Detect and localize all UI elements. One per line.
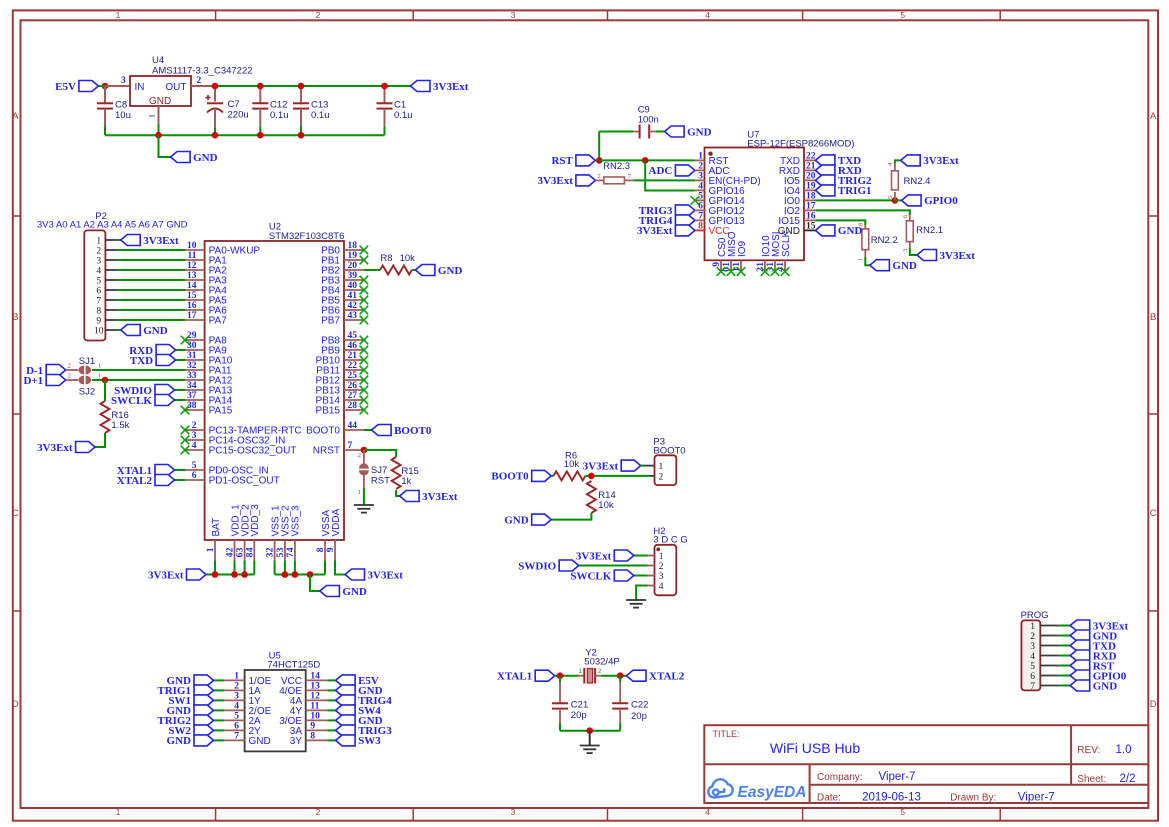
svg-text:OUT: OUT — [165, 82, 186, 93]
solder jumper SJ7 — [358, 450, 390, 496]
wire H2 pin1 — [634, 555, 648, 557]
svg-text:7: 7 — [348, 441, 353, 451]
solder jumper SJ1 — [66, 356, 102, 374]
svg-text:4: 4 — [192, 441, 197, 451]
svg-text:IO9: IO9 — [737, 240, 748, 257]
svg-text:3: 3 — [234, 692, 239, 702]
no-connect X at U2 right y350 — [360, 346, 369, 355]
svg-text:9: 9 — [326, 547, 336, 552]
svg-text:7: 7 — [286, 552, 296, 557]
resistor R15 — [392, 457, 419, 489]
svg-text:2/2: 2/2 — [1120, 773, 1136, 785]
no-connect X at U2 right y300 — [360, 296, 369, 305]
capacitor C9 — [599, 105, 664, 139]
svg-text:3: 3 — [659, 572, 664, 582]
wire RN2.4 to 3V3Ext — [895, 160, 901, 163]
svg-text:74HCT125D: 74HCT125D — [267, 660, 320, 671]
svg-text:19: 19 — [348, 251, 358, 261]
no-connect X at U2 right y260 — [360, 256, 369, 265]
svg-text:EasyEDA: EasyEDA — [738, 784, 807, 801]
net flag TRIG1 — [157, 685, 213, 697]
svg-text:10: 10 — [187, 241, 197, 251]
wire PD0 to XTAL1 flag — [175, 469, 186, 471]
mcu module U7 body — [705, 130, 855, 261]
svg-text:RST: RST — [551, 155, 573, 167]
net flag SWCLK — [111, 395, 174, 407]
svg-text:2: 2 — [192, 421, 197, 431]
svg-text:5: 5 — [96, 276, 101, 286]
U7 left pins — [695, 152, 761, 227]
title block Sheet — [1077, 773, 1135, 785]
svg-text:3: 3 — [266, 552, 276, 557]
svg-text:26: 26 — [348, 381, 358, 391]
no-connect X at U2 right y370 — [360, 366, 369, 375]
resistor R8 — [380, 253, 415, 275]
net flag 3V3Ext — [1070, 620, 1128, 632]
svg-text:22: 22 — [806, 152, 816, 162]
net flag GND — [665, 126, 712, 138]
svg-text:3V3Ext: 3V3Ext — [37, 442, 73, 454]
net flag TRIG4 — [336, 695, 393, 707]
svg-text:9: 9 — [310, 722, 315, 732]
svg-text:3V3Ext: 3V3Ext — [368, 569, 404, 581]
no-connect X at U7 pin5 — [691, 196, 700, 205]
wire PA10 to TXD flag — [176, 359, 185, 361]
svg-text:5: 5 — [192, 461, 197, 471]
wire junction to GPIO0 flag — [895, 199, 902, 201]
wire IO15 to RN2.2 — [815, 220, 865, 225]
svg-text:6: 6 — [192, 471, 197, 481]
svg-text:4: 4 — [96, 266, 101, 276]
svg-text:3V3Ext: 3V3Ext — [576, 550, 612, 562]
wire R15 to 3V3Ext — [396, 490, 400, 496]
junction crystal gnd — [586, 727, 593, 734]
junction BAT — [212, 571, 219, 578]
net flag SWDIO — [114, 385, 174, 397]
svg-text:Sheet:: Sheet: — [1077, 774, 1106, 785]
wire PB2 to R8 — [364, 269, 380, 271]
net flag GND — [320, 586, 367, 598]
net flag E5V — [336, 675, 379, 687]
net flag GND — [336, 715, 383, 727]
svg-text:RN2.4: RN2.4 — [904, 176, 931, 187]
ground symbol at SJ7 — [354, 505, 374, 513]
svg-text:5: 5 — [887, 196, 894, 199]
svg-text:20: 20 — [348, 261, 358, 271]
svg-text:1: 1 — [234, 672, 239, 682]
net flag GND — [167, 735, 214, 747]
svg-text:13: 13 — [310, 682, 320, 692]
svg-text:1: 1 — [698, 152, 703, 162]
connector H2 — [653, 526, 687, 595]
junction C12 — [257, 83, 264, 90]
no-connect X at U2 left y440 — [181, 436, 190, 445]
net flag XTAL2 — [117, 475, 175, 487]
net flag GND — [167, 675, 214, 687]
svg-text:8: 8 — [316, 547, 326, 552]
svg-text:3: 3 — [236, 547, 246, 552]
net flag SWCLK — [570, 570, 633, 582]
svg-text:Company:: Company: — [817, 772, 863, 783]
net flag TRIG3 — [639, 205, 695, 217]
svg-text:3: 3 — [511, 10, 516, 20]
U7 pin 8 VCC — [695, 222, 730, 237]
svg-text:4: 4 — [698, 182, 703, 192]
svg-text:1: 1 — [358, 489, 361, 496]
net flag ADC — [649, 165, 695, 177]
svg-text:BOOT0: BOOT0 — [394, 425, 432, 437]
svg-text:4: 4 — [245, 547, 255, 552]
svg-text:14: 14 — [187, 281, 197, 291]
wire C9 to RST row — [598, 132, 600, 161]
svg-text:SJ1: SJ1 — [79, 356, 95, 367]
svg-text:3: 3 — [511, 807, 516, 817]
ground symbol at Y2 — [580, 731, 600, 753]
svg-text:BOOT0: BOOT0 — [306, 426, 340, 437]
wire Y2 to XTAL2 node — [602, 675, 627, 677]
net flag 3V3Ext — [148, 569, 206, 581]
svg-text:D: D — [12, 699, 19, 710]
connector P3 — [653, 437, 685, 486]
svg-text:SWDIO: SWDIO — [518, 560, 556, 572]
wire BOOT0 to R6 — [551, 475, 553, 477]
svg-text:3V3Ext: 3V3Ext — [433, 81, 469, 93]
svg-text:2: 2 — [1030, 632, 1035, 642]
net flag GPIO0 — [902, 195, 959, 207]
svg-text:32: 32 — [187, 361, 197, 371]
no-connect X at U2 right y410 — [360, 406, 369, 415]
net flag TXD — [130, 355, 176, 367]
svg-text:XTAL2: XTAL2 — [649, 671, 685, 683]
net flag 3V3Ext — [576, 550, 634, 562]
svg-text:PC15-OSC32_OUT: PC15-OSC32_OUT — [209, 446, 297, 457]
svg-text:20p: 20p — [571, 710, 587, 721]
junction GND tap — [307, 571, 314, 578]
svg-text:2: 2 — [316, 807, 321, 817]
no-connect X at U7 MISO — [727, 267, 736, 276]
wire PA12 to SJ2 — [92, 379, 185, 381]
U2 right pins PB/BOOT0/NRST — [306, 241, 364, 456]
junction R6/R14 — [588, 473, 595, 480]
svg-text:21: 21 — [806, 162, 816, 172]
junction C12 gnd — [257, 132, 264, 139]
svg-text:40: 40 — [348, 281, 358, 291]
solder jumper SJ2 — [66, 373, 102, 398]
svg-text:1: 1 — [776, 262, 786, 267]
junction XTAL1/C21 — [557, 672, 564, 679]
svg-text:3: 3 — [96, 256, 101, 266]
wire R16 to 3V3Ext — [95, 433, 105, 447]
PROG pin wires — [1040, 626, 1070, 686]
svg-text:TXD: TXD — [130, 355, 153, 367]
svg-text:GND: GND — [143, 325, 168, 337]
svg-text:SCLK: SCLK — [781, 231, 792, 257]
no-connect X at U2 left y430 — [181, 426, 190, 435]
svg-text:SJ2: SJ2 — [79, 387, 95, 398]
svg-text:PA15: PA15 — [209, 406, 233, 417]
svg-text:1: 1 — [756, 262, 766, 267]
no-connect X at U7 IO10 — [761, 267, 770, 276]
no-connect X at U2 right y390 — [360, 386, 369, 395]
svg-text:BOOT0: BOOT0 — [491, 471, 529, 483]
net flag GND — [167, 705, 214, 717]
svg-text:Viper-7: Viper-7 — [1018, 792, 1055, 804]
svg-text:11: 11 — [310, 702, 319, 712]
net flag XTAL2 — [627, 670, 685, 682]
svg-text:16: 16 — [187, 301, 197, 311]
junction at E5V/C8 — [102, 83, 109, 90]
svg-text:1k: 1k — [401, 476, 411, 487]
svg-text:3: 3 — [698, 172, 703, 182]
svg-text:4: 4 — [659, 582, 664, 592]
junction C7 — [212, 83, 219, 90]
svg-text:3V3Ext: 3V3Ext — [143, 235, 179, 247]
U2 bottom pins BAT/VDD/VSS — [206, 504, 342, 560]
svg-text:REV:: REV: — [1077, 745, 1100, 756]
wire SJ2 to R16 — [104, 380, 106, 401]
svg-text:46: 46 — [348, 341, 358, 351]
svg-text:2: 2 — [698, 162, 703, 172]
svg-text:ADC: ADC — [649, 165, 673, 177]
no-connect X at U2 right y310 — [360, 306, 369, 315]
junction NRST — [361, 447, 368, 454]
svg-text:C: C — [12, 508, 19, 519]
wire IO2 to RN2.1 — [815, 210, 909, 215]
svg-text:R8: R8 — [380, 253, 392, 264]
net flag 3V3Ext — [637, 225, 695, 237]
U5 left pins — [214, 672, 272, 747]
svg-text:GND: GND — [149, 96, 171, 107]
svg-text:C22: C22 — [631, 700, 648, 711]
svg-text:5: 5 — [276, 552, 286, 557]
svg-text:1: 1 — [96, 236, 101, 246]
svg-text:GND: GND — [892, 260, 917, 272]
svg-text:SWCLK: SWCLK — [570, 570, 611, 582]
wire H2 pin4 to ground — [636, 586, 648, 601]
resistor RN2.4 — [887, 162, 930, 200]
no-connect X at U2 left y410 — [181, 406, 190, 415]
svg-text:C13: C13 — [311, 99, 328, 110]
net flag D-1 — [26, 365, 66, 377]
junction VSS_3 — [292, 571, 299, 578]
net flag GPIO0 — [1070, 670, 1127, 682]
svg-text:3: 3 — [121, 76, 126, 86]
junction C13 — [298, 83, 305, 90]
wire XTAL1 node — [555, 675, 578, 677]
svg-text:A: A — [12, 111, 19, 122]
svg-text:10k: 10k — [598, 500, 614, 511]
svg-text:1: 1 — [659, 552, 664, 562]
svg-text:13: 13 — [187, 271, 197, 281]
no-connect X at U2 right y340 — [360, 336, 369, 345]
capacitor C21 — [552, 676, 588, 731]
connector PROG — [1021, 610, 1049, 692]
svg-text:2: 2 — [68, 363, 71, 370]
svg-text:21: 21 — [348, 351, 358, 361]
svg-text:PA7: PA7 — [209, 316, 228, 327]
wire RST to U7 pin1 — [599, 159, 695, 161]
junction C13 gnd — [298, 132, 305, 139]
svg-text:B: B — [12, 312, 18, 323]
svg-text:9: 9 — [712, 262, 722, 267]
net flag 3V3Ext — [917, 250, 975, 262]
net flag 3V3Ext — [37, 442, 95, 454]
net flag TRIG1 — [815, 185, 871, 197]
svg-text:E5V: E5V — [55, 81, 76, 93]
wire PD1 to XTAL2 flag — [175, 479, 186, 481]
P3 pin1 stub — [641, 465, 655, 467]
resistor RN2.2 — [858, 223, 898, 261]
svg-text:37: 37 — [187, 391, 197, 401]
svg-text:31: 31 — [187, 351, 197, 361]
svg-text:4: 4 — [234, 702, 239, 712]
wire BOOT0 pin44 — [364, 429, 372, 431]
svg-text:VSS_3: VSS_3 — [291, 505, 302, 537]
svg-text:PD1-OSC_OUT: PD1-OSC_OUT — [209, 476, 280, 487]
no-connect X at U7 IO9 — [737, 267, 746, 276]
title block TITLE text — [713, 729, 861, 756]
svg-text:5032/4P: 5032/4P — [584, 656, 619, 667]
svg-text:2: 2 — [598, 173, 601, 180]
net flag GND — [870, 260, 917, 272]
svg-text:7: 7 — [234, 732, 239, 742]
svg-text:PB15: PB15 — [316, 406, 341, 417]
svg-text:3: 3 — [276, 547, 286, 552]
capacitor C12 — [252, 86, 288, 135]
svg-text:Date:: Date: — [817, 793, 841, 804]
no-connect X at U2 right y380 — [360, 376, 369, 385]
svg-text:3: 3 — [902, 249, 909, 252]
U4 pin 3 wire IN — [105, 76, 130, 86]
U4 pin 1 GND lead — [148, 106, 159, 135]
P3 pin2 stub — [649, 475, 655, 477]
svg-text:BOOT0: BOOT0 — [653, 445, 685, 456]
svg-text:GND: GND — [838, 225, 863, 237]
wire R8 to GND flag — [412, 269, 415, 271]
svg-text:C21: C21 — [571, 700, 588, 711]
net flag D+1 — [23, 375, 65, 387]
svg-text:2: 2 — [234, 682, 239, 692]
wire crystal ground rail — [560, 730, 620, 732]
net flag SW4 — [336, 705, 382, 717]
svg-text:PROG: PROG — [1021, 610, 1049, 621]
wire PA9 to RXD flag — [176, 349, 185, 351]
svg-text:15: 15 — [187, 291, 197, 301]
capacitor C22 — [612, 676, 648, 731]
resistor R16 — [101, 401, 130, 433]
svg-text:C7: C7 — [228, 99, 240, 110]
junction PA12/R16 — [102, 377, 109, 384]
svg-text:SWCLK: SWCLK — [111, 395, 152, 407]
svg-text:11: 11 — [188, 251, 197, 261]
svg-text:2: 2 — [68, 373, 71, 380]
svg-text:NRST: NRST — [313, 446, 340, 457]
svg-text:2: 2 — [197, 76, 202, 86]
svg-text:U4: U4 — [152, 55, 164, 66]
net flag GND — [336, 685, 383, 697]
svg-text:2019-06-13: 2019-06-13 — [862, 792, 921, 804]
capacitor C1 — [377, 86, 413, 135]
regulator U4 — [130, 55, 253, 107]
svg-text:RST: RST — [371, 475, 390, 486]
svg-text:1: 1 — [659, 462, 664, 472]
svg-text:3V3Ext: 3V3Ext — [583, 460, 619, 472]
svg-text:5: 5 — [1030, 662, 1035, 672]
svg-text:1: 1 — [206, 547, 216, 552]
svg-text:IN: IN — [135, 82, 145, 93]
wire to GND flag under U2 — [310, 575, 320, 592]
svg-text:19: 19 — [806, 182, 816, 192]
svg-text:15: 15 — [806, 222, 816, 232]
svg-text:RN2.3: RN2.3 — [603, 161, 630, 172]
connector P2 — [37, 211, 188, 341]
net flag 3V3Ext — [901, 155, 959, 167]
wire ground rail — [105, 134, 385, 136]
svg-text:7: 7 — [96, 296, 101, 306]
svg-text:2: 2 — [659, 472, 664, 482]
svg-text:10: 10 — [310, 712, 320, 722]
no-connect X at U2 left y450 — [181, 446, 190, 455]
svg-text:20: 20 — [806, 172, 816, 182]
svg-text:6: 6 — [1030, 672, 1035, 682]
svg-text:1: 1 — [1030, 622, 1035, 632]
svg-text:RN2.2: RN2.2 — [871, 235, 898, 246]
net flag RXD — [129, 345, 175, 357]
net flag 3V3Ext — [400, 491, 458, 503]
svg-text:GND: GND — [1093, 680, 1118, 692]
svg-text:GND: GND — [342, 586, 367, 598]
net flag GND — [1070, 630, 1117, 642]
svg-text:100n: 100n — [638, 115, 659, 126]
title block REV — [1077, 744, 1131, 756]
svg-text:1: 1 — [116, 807, 121, 817]
svg-text:10: 10 — [94, 326, 104, 336]
svg-text:3V3Ext: 3V3Ext — [923, 155, 959, 167]
svg-text:39: 39 — [348, 271, 358, 281]
no-connect X at U2 right y400 — [360, 396, 369, 405]
net flag SW1 — [168, 695, 213, 707]
wire PA14 to SWCLK flag — [175, 399, 186, 401]
net flag SW2 — [168, 725, 213, 737]
H2 pin stubs — [648, 556, 655, 586]
svg-text:3V3Ext: 3V3Ext — [637, 225, 673, 237]
svg-text:1: 1 — [722, 262, 732, 267]
EasyEDA logo — [708, 779, 806, 801]
svg-text:4: 4 — [286, 547, 296, 552]
svg-text:10k: 10k — [400, 253, 416, 264]
net flag 3V3Ext — [411, 81, 469, 93]
capacitor C7 (polarized) — [206, 86, 249, 135]
wire PA13 to SWDIO flag — [175, 389, 186, 391]
net flag 3V3Ext — [583, 460, 641, 472]
wire P2 pin10 — [117, 329, 120, 331]
buffer U5 body — [245, 651, 321, 752]
svg-text:42: 42 — [348, 301, 358, 311]
svg-text:PB7: PB7 — [321, 316, 340, 327]
junction VDD_1 — [231, 571, 238, 578]
svg-text:5: 5 — [698, 192, 703, 202]
svg-text:2: 2 — [358, 452, 361, 459]
svg-text:2: 2 — [226, 547, 236, 552]
svg-text:8: 8 — [310, 732, 315, 742]
svg-text:2: 2 — [659, 562, 664, 572]
wire H2 pin2 — [579, 565, 648, 567]
net flag XTAL1 — [497, 670, 555, 682]
U7 pin 15 GND — [778, 222, 816, 237]
resistor RN2.1 — [902, 214, 943, 252]
svg-text:B: B — [1150, 312, 1156, 323]
svg-text:GND: GND — [167, 735, 192, 747]
